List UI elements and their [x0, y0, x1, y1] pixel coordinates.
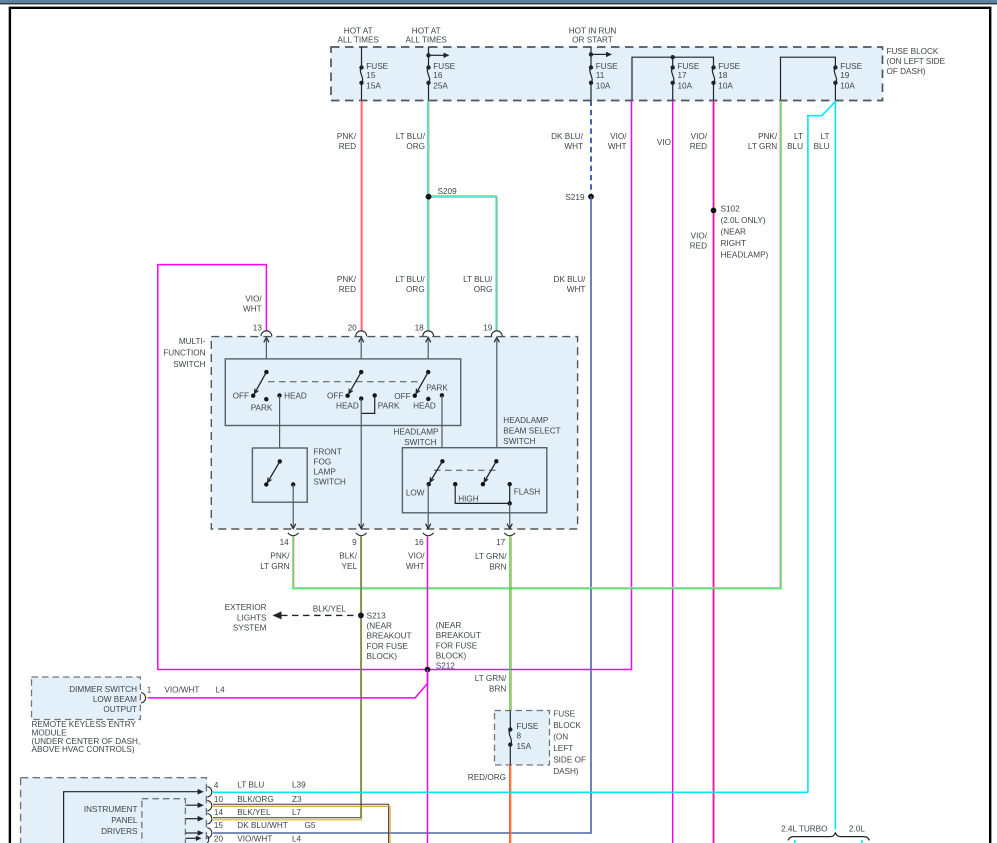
wire LT BLU dashed stub (2.4L turbo) [794, 840, 796, 843]
svg-text:10: 10 [214, 795, 224, 804]
top browser bar remnant [0, 0, 997, 3]
svg-text:G5: G5 [305, 821, 316, 830]
multi-function switch box [211, 337, 577, 529]
svg-text:FUSE BLOCK: FUSE BLOCK [887, 47, 939, 56]
svg-text:S212: S212 [436, 661, 456, 670]
dashed arrow from S213 to exterior lights system [281, 614, 361, 616]
svg-text:BREAKOUT: BREAKOUT [367, 632, 412, 641]
svg-text:HEADLAMP: HEADLAMP [503, 416, 549, 425]
svg-text:L7: L7 [292, 808, 302, 817]
svg-text:9: 9 [352, 538, 357, 547]
svg-text:VIO/: VIO/ [691, 232, 708, 241]
bus feeding fuses 17 and 18, dropping to VIO/WHT [632, 57, 714, 100]
fuse 17 10A [671, 62, 700, 101]
svg-text:15: 15 [214, 821, 224, 830]
svg-text:DK BLU/: DK BLU/ [551, 132, 584, 141]
svg-text:DK BLU/: DK BLU/ [554, 275, 587, 284]
svg-text:BLU: BLU [814, 142, 830, 151]
svg-text:LEFT: LEFT [553, 744, 573, 753]
svg-text:DIMMER SWITCH: DIMMER SWITCH [69, 685, 137, 694]
headlamp switch section 1 (pin 13) [264, 370, 268, 374]
svg-text:ABOVE HVAC CONTROLS): ABOVE HVAC CONTROLS) [32, 745, 135, 754]
svg-text:20: 20 [214, 835, 224, 843]
bus feeding fuse 19, dropping to PNK/LT GRN [781, 57, 836, 100]
svg-text:15A: 15A [366, 82, 381, 91]
svg-text:FUSE: FUSE [718, 62, 740, 71]
wire PNK/LT GRN from fuse 19 bus down, then left to pin 14 [294, 101, 780, 588]
svg-text:RED/ORG: RED/ORG [468, 773, 506, 782]
pin 14 connector [207, 814, 212, 825]
fog lamp switch blade and contacts [278, 459, 282, 463]
internal arrows to pins 10 14 15 20 [185, 804, 199, 806]
wire LT GRN/BRN from pin 17 down to fuse 8 [509, 537, 511, 711]
wire LT BLU from fuse 19 straight down to engine brace [834, 101, 836, 830]
svg-text:PARK: PARK [426, 384, 448, 393]
feed wire into fuse 16 with branch arrow [428, 47, 430, 68]
pin 10 connector [207, 800, 212, 811]
wire VIO from fuse 17 to bottom of page [672, 101, 674, 843]
svg-text:BLOCK): BLOCK) [436, 652, 467, 661]
svg-text:16: 16 [415, 538, 425, 547]
wire LOW contact down to pin 16 [427, 484, 429, 528]
svg-text:FUSE: FUSE [840, 62, 862, 71]
fuse block (fuse 8) dashed box [495, 711, 550, 766]
svg-text:HOT AT: HOT AT [412, 27, 441, 36]
svg-text:15A: 15A [517, 742, 532, 751]
svg-text:S213: S213 [367, 612, 387, 621]
svg-text:14: 14 [280, 538, 290, 547]
svg-text:MULTI-: MULTI- [179, 337, 206, 346]
svg-text:BLU: BLU [787, 142, 803, 151]
svg-text:DRIVERS: DRIVERS [101, 827, 138, 836]
svg-text:BLK/: BLK/ [339, 552, 357, 561]
svg-text:FOG: FOG [314, 458, 332, 467]
wire LT BLU dashed stub (2.0L) [861, 840, 863, 843]
svg-text:S219: S219 [565, 193, 585, 202]
svg-text:2.0L: 2.0L [849, 825, 865, 834]
wire VIO/WHT from fuse block bus down to S212 [428, 101, 632, 670]
svg-text:WHT: WHT [243, 305, 262, 314]
headlamp switch section 3 (pin 18) [426, 370, 430, 374]
splice S212 [425, 667, 431, 673]
wire VIO/RED from fuse 18 through S102 to bottom of page [712, 101, 714, 843]
svg-text:WHT: WHT [608, 142, 627, 151]
svg-text:SIDE OF: SIDE OF [553, 756, 586, 765]
svg-text:LT BLU/: LT BLU/ [395, 275, 425, 284]
headlamp switch section 2 (pin 20) [359, 370, 363, 374]
wire PNK/RED from fuse 15 to pin 20 [360, 101, 362, 332]
pin 14 connector (bottom) [291, 524, 296, 529]
instrument panel drivers outer box [21, 778, 207, 843]
svg-text:LT: LT [821, 132, 830, 141]
splice S219 [588, 194, 594, 200]
svg-text:DASH): DASH) [553, 767, 579, 776]
svg-text:OFF: OFF [233, 391, 249, 400]
svg-text:ORG: ORG [406, 142, 425, 151]
svg-text:LT: LT [794, 132, 803, 141]
fuse 8 15A [509, 711, 511, 730]
svg-text:(2.0L ONLY): (2.0L ONLY) [721, 216, 766, 225]
headlamp switch inner box [225, 359, 460, 426]
svg-text:SYSTEM: SYSTEM [233, 624, 267, 633]
pin 16 connector (bottom) [426, 524, 431, 529]
beam select left switch (LOW) [440, 459, 444, 463]
wire LT BLU/ORG from fuse 16 through S209 to pin 18 [427, 101, 429, 332]
svg-text:EXTERIOR: EXTERIOR [225, 603, 267, 612]
wire VIO/WHT L4 from dimmer pin 1 to S212 [148, 670, 428, 698]
beam select right switch (HIGH/FLASH) [494, 459, 498, 463]
svg-text:L4: L4 [216, 686, 226, 695]
splice S209 [426, 194, 432, 200]
svg-text:(NEAR: (NEAR [367, 622, 393, 631]
svg-text:FOR FUSE: FOR FUSE [436, 641, 478, 650]
svg-text:LOW BEAM: LOW BEAM [93, 695, 137, 704]
svg-text:BEAM SELECT: BEAM SELECT [503, 427, 560, 436]
svg-text:11: 11 [596, 71, 605, 80]
svg-text:HEAD: HEAD [336, 402, 359, 411]
svg-text:BRN: BRN [489, 563, 506, 572]
svg-text:BLK/YEL: BLK/YEL [313, 605, 347, 614]
wire pin 13 to switch pivot [265, 338, 267, 372]
svg-text:RED: RED [339, 142, 356, 151]
svg-text:FUSE: FUSE [517, 722, 539, 731]
svg-text:LT BLU: LT BLU [237, 781, 264, 790]
wire LT BLU branch jog from fuse 19 down left side [808, 102, 836, 793]
wire LT BLU L39 from pin 4 [213, 791, 808, 793]
svg-text:17: 17 [496, 538, 506, 547]
svg-text:PARK: PARK [378, 401, 400, 410]
svg-text:PANEL: PANEL [111, 816, 138, 825]
svg-text:SWITCH: SWITCH [314, 478, 346, 487]
fuse 19 10A [833, 62, 862, 101]
svg-text:ALL TIMES: ALL TIMES [337, 35, 379, 44]
svg-text:LOW: LOW [406, 488, 425, 497]
svg-text:10A: 10A [840, 82, 855, 91]
wire DK BLU/WHT dashed from fuse 11 to S219 [590, 101, 592, 197]
svg-text:(ON LEFT SIDE: (ON LEFT SIDE [887, 57, 946, 66]
pin 20 connector [207, 836, 209, 843]
svg-text:FOR FUSE: FOR FUSE [367, 642, 409, 651]
svg-text:PNK/: PNK/ [758, 132, 778, 141]
svg-text:25A: 25A [433, 82, 448, 91]
wire DK BLU/WHT solid from S219 down to instrument panel row [213, 197, 591, 833]
instrument panel drivers inner box [142, 799, 186, 843]
svg-text:HEAD: HEAD [284, 391, 307, 400]
svg-text:BRN: BRN [489, 684, 506, 693]
wire BLK/ORG Z3 from pin 10 down at right [213, 804, 389, 843]
svg-text:Z3: Z3 [292, 795, 302, 804]
svg-text:LT GRN/: LT GRN/ [475, 674, 507, 683]
svg-text:S102: S102 [721, 205, 741, 214]
svg-text:PNK/: PNK/ [337, 132, 357, 141]
svg-text:SWITCH: SWITCH [404, 438, 436, 447]
svg-text:BLK/ORG: BLK/ORG [237, 795, 273, 804]
svg-text:OUTPUT: OUTPUT [103, 705, 137, 714]
pin 18 connector [423, 331, 434, 336]
wire junction down to pin 17 [509, 503, 511, 528]
svg-text:HIGH: HIGH [458, 494, 479, 503]
svg-text:17: 17 [678, 71, 688, 80]
svg-text:10A: 10A [718, 82, 733, 91]
svg-text:DK BLU/WHT: DK BLU/WHT [237, 821, 287, 830]
svg-text:LIGHTS: LIGHTS [237, 613, 267, 622]
fuse 11 10A [589, 62, 618, 101]
svg-text:VIO/: VIO/ [408, 552, 425, 561]
svg-text:FUSE: FUSE [553, 710, 575, 719]
svg-text:4: 4 [214, 781, 219, 790]
wire VIO/WHT loop from S212 left and up to pin 13 [158, 265, 428, 670]
svg-text:LT GRN: LT GRN [260, 562, 289, 571]
svg-text:RED: RED [339, 285, 356, 294]
svg-text:FUSE: FUSE [678, 62, 700, 71]
svg-text:LT BLU/: LT BLU/ [463, 275, 493, 284]
wire pin 19 to beam select pivot [496, 338, 498, 461]
gang link dashed line [268, 381, 419, 383]
svg-text:18: 18 [718, 71, 728, 80]
svg-text:INSTRUMENT: INSTRUMENT [84, 805, 138, 814]
svg-text:LT BLU/: LT BLU/ [396, 132, 426, 141]
svg-text:2.4L TURBO: 2.4L TURBO [781, 825, 827, 834]
svg-text:L39: L39 [292, 781, 306, 790]
svg-text:L4: L4 [292, 835, 302, 843]
jumper HIGH to FLASH junction [455, 484, 510, 503]
wire HEAD contact down to fog lamp switch [279, 396, 281, 462]
fuse 16 25A [426, 62, 455, 101]
svg-text:HOT AT: HOT AT [344, 27, 373, 36]
svg-text:PARK: PARK [251, 404, 273, 413]
fuse 18 10A [711, 62, 740, 101]
svg-text:(ON: (ON [553, 733, 568, 742]
pin 9 connector (bottom) [359, 524, 364, 529]
headlamp beam select switch box [402, 448, 546, 513]
svg-text:HEAD: HEAD [413, 402, 436, 411]
svg-text:HOT IN RUN: HOT IN RUN [569, 27, 617, 36]
pin 15 connector [207, 828, 212, 839]
svg-text:FUSE: FUSE [433, 62, 455, 71]
svg-text:VIO/: VIO/ [691, 132, 708, 141]
svg-text:18: 18 [415, 324, 425, 333]
svg-text:WHT: WHT [406, 562, 425, 571]
svg-text:(NEAR: (NEAR [721, 228, 747, 237]
svg-text:1: 1 [147, 686, 152, 695]
splice S213 [358, 613, 364, 619]
svg-text:10A: 10A [596, 82, 611, 91]
svg-text:BLOCK): BLOCK) [367, 652, 398, 661]
svg-text:BLK/YEL: BLK/YEL [237, 808, 271, 817]
wire VIO/WHT from pin 16 down through S212 to bottom of page [427, 537, 429, 843]
wire pin 20 to switch pivot [360, 338, 362, 372]
svg-text:OF DASH): OF DASH) [887, 67, 926, 76]
pin 4 connector [207, 787, 212, 798]
svg-text:OR START: OR START [572, 35, 613, 44]
wire RED/ORG from fuse 8 down to bottom of page [509, 765, 511, 843]
svg-text:FUSE: FUSE [596, 62, 618, 71]
beam select gang dashed link [434, 469, 496, 471]
svg-text:RIGHT: RIGHT [721, 239, 746, 248]
svg-text:20: 20 [348, 324, 358, 333]
pin 17 connector (bottom) [507, 524, 512, 529]
feed wire into fuse 11 with branch arrow [590, 47, 592, 68]
wire PARK contact down to beam select pivot [441, 395, 443, 461]
svg-text:PNK/: PNK/ [270, 552, 290, 561]
svg-text:LT GRN: LT GRN [748, 142, 777, 151]
svg-text:S209: S209 [438, 187, 458, 196]
svg-text:14: 14 [214, 808, 224, 817]
svg-text:8: 8 [517, 732, 522, 741]
svg-text:OFF: OFF [394, 392, 410, 401]
pin 13 connector [261, 331, 272, 336]
svg-text:FUNCTION: FUNCTION [163, 349, 205, 358]
splice S102 [711, 208, 717, 214]
wire LT BLU/ORG branch from S209 to pin 19 [429, 196, 497, 331]
internal wire to pin 4 [64, 792, 200, 843]
svg-text:RED: RED [690, 242, 707, 251]
svg-text:(NEAR: (NEAR [436, 621, 462, 630]
pin 20 connector [356, 331, 367, 336]
svg-text:15: 15 [366, 71, 376, 80]
front fog lamp switch box [252, 448, 307, 502]
svg-text:WHT: WHT [567, 285, 586, 294]
feed wire into fuse 15 [361, 47, 363, 68]
svg-text:BREAKOUT: BREAKOUT [436, 631, 481, 640]
svg-text:ORG: ORG [474, 285, 493, 294]
svg-text:VIO/: VIO/ [245, 295, 262, 304]
svg-text:FUSE: FUSE [366, 62, 388, 71]
svg-text:FRONT: FRONT [314, 448, 342, 457]
svg-text:VIO/WHT: VIO/WHT [164, 686, 199, 695]
svg-text:ALL TIMES: ALL TIMES [405, 35, 447, 44]
svg-text:BLOCK: BLOCK [553, 721, 581, 730]
engine variant brace [788, 832, 869, 840]
svg-text:LT GRN/: LT GRN/ [475, 552, 507, 561]
wire pin 18 to switch pivot [427, 338, 429, 372]
svg-text:16: 16 [433, 71, 443, 80]
svg-text:VIO/WHT: VIO/WHT [237, 835, 272, 843]
wire fog switch contact down to pin 14 [292, 485, 294, 529]
svg-text:HEADLAMP): HEADLAMP) [721, 251, 769, 260]
svg-text:VIO/: VIO/ [610, 132, 627, 141]
svg-text:ORG: ORG [406, 285, 425, 294]
fuse 15 15A [359, 62, 388, 101]
svg-text:SWITCH: SWITCH [173, 360, 205, 369]
jumper HEAD to PARK and wire down to pin 9 [361, 395, 375, 413]
svg-text:YEL: YEL [342, 562, 358, 571]
pin 1 connector [141, 693, 146, 704]
wire BLK/YEL from pin 9 through S213 down to panel row 14 [360, 537, 362, 819]
svg-text:RED: RED [690, 142, 707, 151]
svg-text:SWITCH: SWITCH [503, 437, 535, 446]
svg-text:13: 13 [253, 324, 263, 333]
svg-text:LAMP: LAMP [314, 468, 337, 477]
dimmer switch low beam output box [32, 677, 141, 720]
svg-text:10A: 10A [678, 82, 693, 91]
fuse block (on left side of dash) [331, 47, 883, 101]
svg-text:HEADLAMP: HEADLAMP [393, 427, 439, 436]
svg-text:19: 19 [840, 71, 850, 80]
svg-text:WHT: WHT [564, 142, 583, 151]
svg-text:19: 19 [483, 324, 493, 333]
svg-text:FLASH: FLASH [514, 488, 540, 497]
svg-text:PNK/: PNK/ [337, 275, 357, 284]
svg-text:VIO: VIO [657, 138, 671, 147]
svg-text:OFF: OFF [327, 391, 343, 400]
pin 19 connector [491, 331, 502, 336]
